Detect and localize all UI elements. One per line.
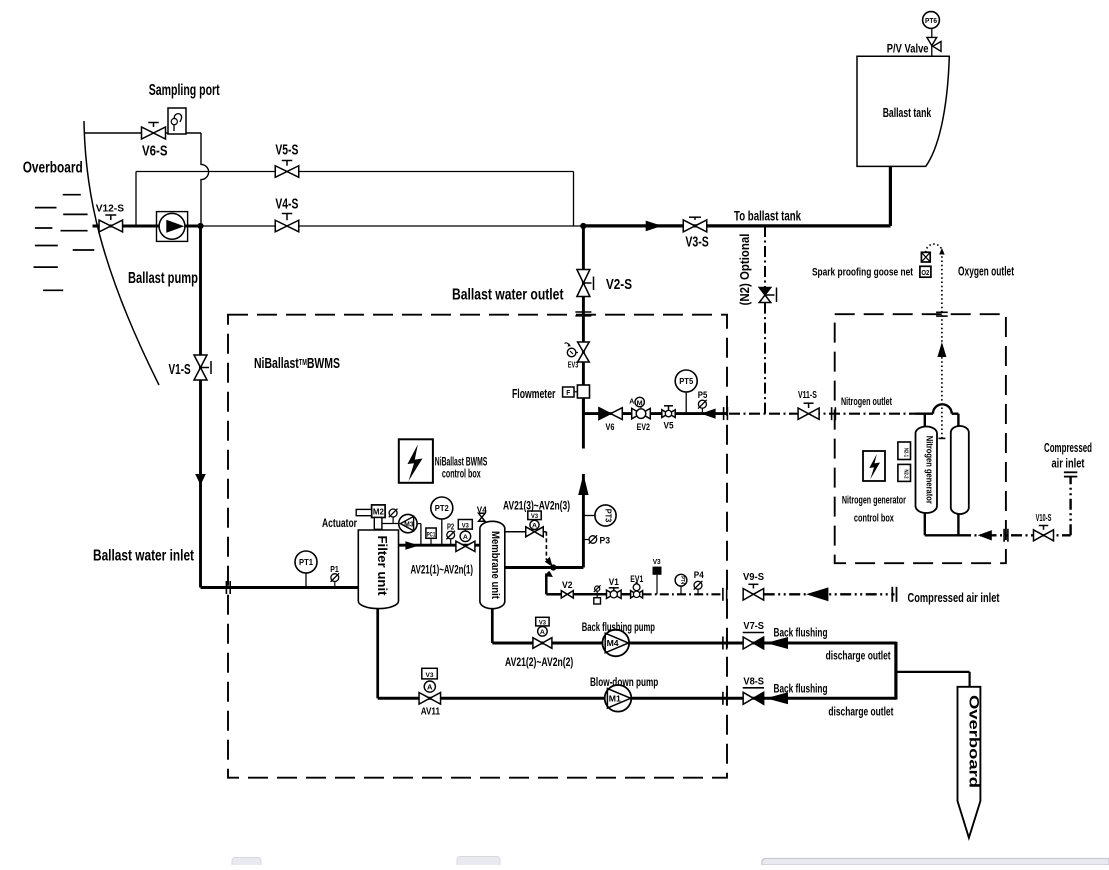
svg-text:AV21(2)~AV2n(2): AV21(2)~AV2n(2) (505, 655, 573, 669)
filter unit vessel (358, 530, 398, 609)
svg-text:P/V Valve: P/V Valve (887, 41, 929, 55)
ballast tank (857, 56, 949, 166)
flow arrow blowdown (766, 692, 788, 704)
oxygen vent origin tick (939, 437, 946, 439)
svg-text:O2: O2 (921, 268, 929, 277)
sensor on filter top (392, 517, 394, 523)
wire generator top manifold with arc over oxygen line (915, 413, 933, 415)
gauge PT3 (595, 505, 616, 526)
svg-text:N2-1: N2-1 (902, 448, 908, 457)
wire compressed air inlet dash-dot-dot (764, 593, 895, 595)
wire actuator to M3 pump (382, 523, 399, 525)
svg-text:V5-S: V5-S (275, 142, 298, 159)
valve EV2 with actuator (632, 408, 641, 418)
svg-text:Nitrogen generator: Nitrogen generator (924, 436, 934, 504)
flow arrow down inlet (195, 474, 206, 485)
compressed air source break symbol (1064, 471, 1077, 473)
wire oxygen vent dotted (941, 256, 943, 438)
sensor P1 (334, 581, 336, 588)
svg-text:A: A (540, 629, 545, 636)
page artifact small 2 (457, 857, 500, 869)
valve AV11 pneumatic (422, 668, 438, 679)
tag V3 solenoid box (656, 575, 658, 595)
boundary crossing tick oxygen (936, 311, 948, 313)
svg-text:V6-S: V6-S (142, 143, 168, 160)
svg-text:Filter unit: Filter unit (375, 536, 389, 597)
svg-text:V2-S: V2-S (606, 276, 632, 293)
wire recirc drop to pump suction (135, 172, 137, 227)
wire nitrogen outlet dash-dot (729, 413, 915, 415)
svg-text:A: A (629, 396, 635, 405)
ship hull curve (84, 121, 159, 385)
actuator side bar (356, 509, 371, 515)
wire (N2) optional line (764, 226, 766, 288)
svg-text:Compressed air inlet: Compressed air inlet (908, 591, 1001, 605)
tag PC1 (430, 538, 432, 545)
svg-text:Nitrogen outlet: Nitrogen outlet (841, 396, 892, 408)
valve V6-S (142, 127, 154, 139)
wire sampling line horizontal (85, 132, 202, 134)
NiBallast BWMS dashed enclosure (228, 315, 727, 778)
valve V3-S (683, 220, 695, 232)
valve AV21(3) pneumatic (528, 511, 541, 520)
O2 tag box (920, 266, 931, 277)
svg-text:NiBallastTMBWMS: NiBallastTMBWMS (254, 355, 340, 372)
sensor P5 (701, 404, 703, 414)
ballast pump (157, 212, 188, 242)
svg-text:A: A (427, 684, 433, 691)
node pump discharge junction (197, 223, 203, 229)
tag N2-1 (898, 442, 911, 460)
sensor P4 (697, 590, 699, 595)
valve V5 nitrogen (662, 410, 669, 418)
svg-text:V12-S: V12-S (96, 203, 124, 215)
svg-text:AV21(3)~AV2n(3): AV21(3)~AV2n(3) (503, 498, 570, 512)
boundary crossing tick blowdown (722, 692, 724, 705)
back flushing pump M4 (603, 630, 630, 657)
svg-text:F: F (566, 388, 570, 397)
svg-text:V8-S: V8-S (743, 675, 764, 687)
drain strainer symbol (596, 592, 598, 595)
P/V valve symbol (931, 28, 933, 37)
svg-text:V3: V3 (539, 620, 547, 626)
wire recirc drop right to main junction (573, 172, 575, 227)
valve N2 optional (759, 288, 771, 296)
svg-text:EV2: EV2 (637, 422, 650, 432)
svg-text:(N2) Optional: (N2) Optional (737, 234, 752, 306)
svg-text:V3: V3 (462, 523, 470, 529)
wire pipe riser to flow branch (582, 474, 585, 568)
nitrogen generator dashed enclosure (835, 314, 1006, 563)
svg-text:PT5: PT5 (679, 376, 693, 386)
svg-text:P2: P2 (447, 522, 455, 531)
svg-text:Oxygen outlet: Oxygen outlet (958, 265, 1015, 279)
wire discharge collector (894, 642, 897, 700)
svg-text:PC1: PC1 (427, 532, 436, 538)
svg-text:PT3: PT3 (604, 509, 614, 523)
wire membrane mid outlet (505, 566, 584, 569)
svg-text:Back flushing: Back flushing (774, 682, 828, 696)
svg-text:M4: M4 (607, 638, 619, 648)
svg-text:V7-S: V7-S (743, 620, 764, 632)
svg-text:PT6: PT6 (925, 16, 937, 25)
spark proofing goose net symbol (921, 252, 930, 262)
boundary crossing tick on outlet pipe (575, 311, 591, 313)
svg-text:V10-S: V10-S (1036, 512, 1052, 524)
boundary crossing tick inlet (225, 581, 227, 594)
flow arrow air into generator (978, 530, 992, 540)
wire AV21(3) drop dash (543, 531, 546, 533)
wire sampling line vertical with hop (201, 133, 209, 223)
svg-text:V3-S: V3-S (685, 233, 708, 250)
boundary crossing tick nitrogen feed (723, 407, 725, 420)
flow arrow oxygen up (937, 342, 946, 357)
wire nitrogen feed branch solid (583, 412, 727, 415)
nitrogen generator column 2 (951, 426, 969, 514)
svg-text:AV11: AV11 (421, 706, 440, 718)
wire V5-S recirculation line (136, 171, 574, 173)
svg-text:V3: V3 (426, 672, 434, 679)
svg-text:AV21(1)~AV2n(1): AV21(1)~AV2n(1) (411, 562, 474, 576)
sampling port box with hose icon (168, 108, 186, 134)
svg-text:V11-S: V11-S (798, 389, 817, 401)
svg-text:P1: P1 (330, 564, 339, 574)
svg-text:V5: V5 (664, 421, 674, 431)
svg-text:NiBallast BWMS: NiBallast BWMS (435, 456, 488, 468)
nitrogen generator control box (863, 451, 885, 481)
svg-text:V1: V1 (609, 577, 619, 587)
sea water waves (63, 194, 81, 196)
svg-text:Membrane unit: Membrane unit (489, 531, 501, 599)
valve V4-S (275, 220, 287, 232)
boundary crossing tick air line (722, 588, 724, 601)
wire compressed air feed dash-dot-dot (960, 534, 1071, 536)
actuator M2 on filter (372, 505, 386, 518)
valve V5-S (275, 166, 287, 178)
wire generator bottom manifold (924, 514, 926, 536)
valve V8-S (743, 692, 753, 704)
boundary crossing tick air feed (1003, 529, 1005, 542)
gauge PT4 (680, 586, 682, 594)
svg-text:control box: control box (854, 513, 895, 525)
svg-text:N2-2: N2-2 (902, 470, 908, 479)
svg-text:P4: P4 (694, 570, 704, 580)
gauge PT2 (431, 497, 453, 519)
svg-text:V6: V6 (606, 422, 615, 432)
flowmeter (577, 385, 589, 398)
gauge PT5 (675, 370, 697, 392)
svg-text:Ballast water outlet: Ballast water outlet (452, 287, 564, 304)
wire filter outlet pipe (399, 544, 480, 547)
svg-text:PT1: PT1 (299, 557, 313, 567)
svg-text:EV3: EV3 (568, 360, 579, 369)
svg-text:Sampling port: Sampling port (149, 82, 220, 99)
svg-text:Overboard: Overboard (23, 160, 83, 177)
valve AV21(2) pneumatic (536, 617, 549, 626)
compressed air source break 2 (891, 587, 893, 602)
boundary crossing tick nitrogen outlet (831, 407, 833, 420)
valve V9-S (743, 589, 753, 601)
svg-text:M2: M2 (373, 508, 385, 517)
flow arrow to ballast tank (646, 221, 662, 232)
valve V1-S (194, 355, 207, 368)
valve V10-S (1034, 530, 1044, 541)
membrane unit vessel (480, 521, 505, 608)
svg-text:M1: M1 (609, 694, 621, 704)
wire main line pump to tank junction (201, 225, 584, 227)
overboard discharge pointer (958, 687, 981, 838)
svg-text:A: A (463, 534, 468, 541)
wire ballast water inlet vertical (199, 226, 202, 588)
svg-text:EV1: EV1 (630, 574, 643, 584)
wire V2 branch drop (545, 571, 553, 577)
valve V11-S (798, 408, 809, 419)
valve V7-S (743, 637, 753, 649)
goose neck dotted arc (926, 244, 942, 252)
svg-text:Nitrogen generator: Nitrogen generator (842, 495, 906, 507)
svg-text:Overboard: Overboard (966, 695, 981, 788)
svg-text:P5: P5 (698, 390, 708, 400)
wire filter drain (376, 609, 379, 699)
valve V2-S (577, 270, 590, 284)
svg-text:M: M (637, 400, 643, 407)
wire air line solid part (573, 593, 631, 596)
valve EV3 solenoid (578, 342, 590, 352)
svg-text:V2: V2 (562, 580, 573, 590)
svg-text:Compressed: Compressed (1044, 441, 1092, 455)
gauge PT1 (295, 551, 317, 573)
flow arrow backflush (766, 637, 788, 649)
gauge PT6 (923, 12, 940, 29)
tag N2-2 (898, 464, 911, 481)
svg-text:V3: V3 (531, 514, 539, 520)
wire main sea suction line (93, 225, 201, 228)
flow arrow air inlet (806, 587, 828, 601)
flow arrow up riser (578, 474, 588, 495)
boundary crossing tick backflush (722, 637, 724, 650)
wire air line dash-dot part (643, 593, 722, 595)
svg-text:To ballast tank: To ballast tank (734, 208, 801, 223)
wire back flushing line (492, 642, 896, 645)
svg-text:discharge outlet: discharge outlet (828, 705, 893, 719)
wire blow-down line (378, 697, 896, 700)
svg-text:Actuator: Actuator (322, 516, 357, 530)
svg-text:discharge outlet: discharge outlet (826, 649, 891, 663)
svg-text:P3: P3 (600, 535, 611, 546)
svg-text:Ballast water inlet: Ballast water inlet (93, 547, 194, 564)
blow-down pump M1 (605, 685, 632, 712)
svg-text:PT4: PT4 (679, 576, 685, 584)
svg-text:V9-S: V9-S (743, 571, 764, 583)
node membrane outlet junction (550, 564, 556, 570)
wire to-ballast-tank line (583, 224, 890, 227)
sensor P2 (450, 539, 452, 545)
flow arrow nitrogen into branch (701, 409, 716, 419)
wire membrane drain (491, 608, 494, 643)
valve V1 ball (607, 590, 614, 598)
svg-text:V4-S: V4-S (275, 196, 298, 213)
page artifact small 1 (232, 858, 261, 870)
svg-text:Back flushing pump: Back flushing pump (582, 620, 655, 634)
svg-text:air inlet: air inlet (1052, 457, 1086, 471)
sensor P3 (583, 539, 589, 541)
valve V6 nitrogen (599, 408, 611, 420)
pump M3 on filter outlet (417, 523, 421, 525)
wire membrane top outlet (505, 531, 526, 533)
svg-text:Ballast pump: Ballast pump (128, 270, 198, 287)
svg-text:Spark proofing goose net: Spark proofing goose net (812, 266, 913, 278)
wire ballast water inlet horizontal (201, 586, 359, 589)
wire pipe below flowmeter (582, 398, 585, 449)
flow arrow filter outlet (405, 541, 419, 550)
nitrogen generator column 1 (916, 427, 938, 514)
svg-text:control box: control box (442, 468, 481, 480)
svg-text:A: A (532, 523, 537, 530)
page artifact wide bar (762, 859, 1109, 866)
svg-text:M3: M3 (404, 521, 414, 528)
valve EV1 solenoid (631, 591, 637, 598)
valve V12-S (99, 220, 111, 232)
NiBallast BWMS control box (399, 439, 433, 483)
svg-text:Flowmeter: Flowmeter (512, 386, 555, 401)
svg-text:PT2: PT2 (435, 503, 449, 513)
svg-text:V1-S: V1-S (169, 361, 191, 378)
svg-text:Ballast tank: Ballast tank (883, 105, 932, 120)
node V2-S junction (580, 223, 586, 229)
svg-text:Blow-down pump: Blow-down pump (590, 675, 658, 689)
valve AV21(1) pneumatic (458, 520, 472, 530)
valve V2 (561, 591, 567, 598)
svg-text:V3: V3 (653, 559, 661, 566)
wire ballast water outlet pipe upper (582, 226, 585, 413)
svg-text:Back flushing: Back flushing (774, 626, 828, 640)
